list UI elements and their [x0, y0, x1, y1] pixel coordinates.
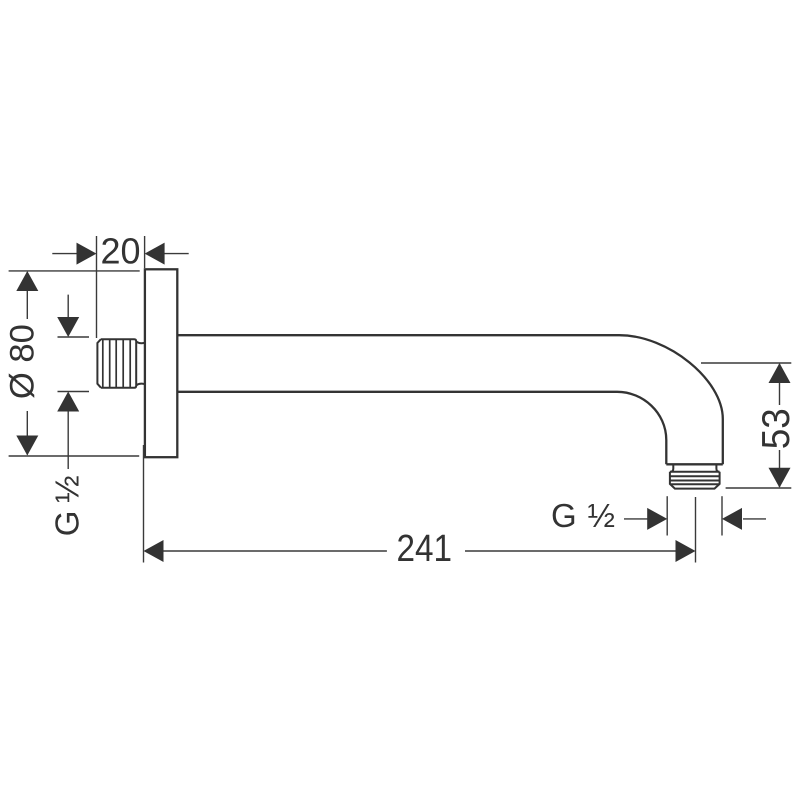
tip thread line 3	[670, 483, 720, 485]
outlet center ext line	[695, 497, 697, 563]
dia80 top arrow	[16, 271, 38, 291]
ext line left of 20 dim	[96, 236, 98, 338]
neck fillet top	[136, 342, 144, 344]
outlet threaded tip G1/2	[670, 464, 720, 488]
thread ridges	[103, 339, 130, 388]
outlet left ext line	[666, 496, 668, 535]
shower arm tube inner contour	[177, 392, 666, 465]
outlet shoulder line	[666, 463, 723, 465]
53 bottom arrow	[769, 468, 791, 488]
wall flange (escutcheon side view)	[145, 269, 177, 457]
20 dim right arrow	[145, 243, 165, 265]
20 dim tails	[52, 253, 188, 255]
tip collar outline	[670, 472, 720, 489]
shower arm tube outer contour	[177, 335, 723, 464]
wall-side threaded connector G1/2	[97, 339, 144, 388]
tip thread line 2	[670, 480, 720, 482]
svg-text:Ø 80: Ø 80	[3, 324, 41, 399]
G1/2 right left-pointing arrow	[722, 508, 742, 530]
svg-text:241: 241	[397, 528, 453, 570]
dia80 bottom arrow	[16, 436, 38, 456]
G1/2 left ticks	[58, 337, 90, 392]
G1/2 right leader arrow	[647, 508, 667, 530]
ext line right of 20 dim	[144, 236, 146, 268]
tip neck	[671, 464, 720, 472]
G1/2 left lower arrow	[57, 392, 79, 412]
svg-text:G ½: G ½	[551, 497, 615, 534]
241 left ext line	[143, 445, 145, 563]
svg-text:G ½: G ½	[49, 475, 86, 536]
20 dim left arrow	[77, 243, 97, 265]
svg-text:20: 20	[101, 231, 141, 272]
G1/2 right arrow tail	[743, 518, 766, 520]
arrowheads	[16, 243, 790, 562]
53 bottom ext line	[726, 487, 792, 489]
outlet right ext line	[721, 496, 723, 535]
dia80 top ext line	[9, 270, 140, 272]
241 dim line segments	[161, 550, 678, 552]
tip thread line 1	[670, 475, 720, 477]
241 right arrow	[676, 540, 696, 562]
G1/2 left dim segments	[67, 295, 69, 469]
53 top ext line	[701, 362, 791, 364]
53 dim line segments	[779, 364, 781, 487]
241 left arrow	[144, 540, 164, 562]
G1/2 right leader tail	[624, 518, 650, 520]
dia80 dim line segments	[26, 272, 28, 455]
neck fillet bottom	[136, 384, 144, 386]
G1/2 left upper arrow	[57, 317, 79, 337]
dia80 bottom ext line	[9, 455, 140, 457]
53 top arrow	[769, 363, 791, 383]
thread body outline with chamfered left corners	[97, 339, 136, 388]
svg-text:53: 53	[755, 408, 798, 449]
dimension and extension lines	[9, 236, 792, 563]
